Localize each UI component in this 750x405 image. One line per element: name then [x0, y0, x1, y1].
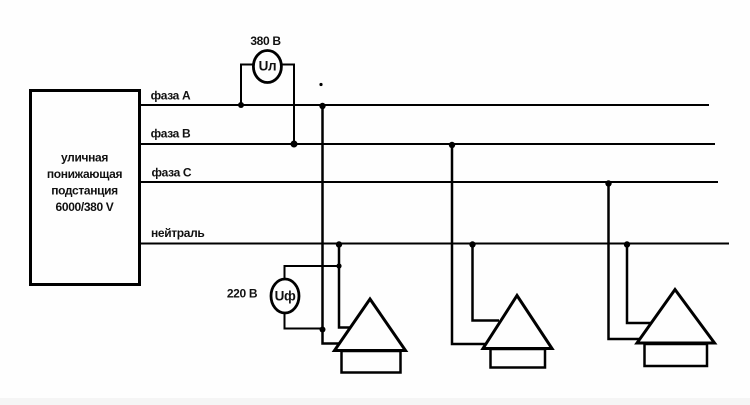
- junction dot neutral / house3 drop: [624, 241, 630, 247]
- voltmeter U1 (line voltage): [253, 51, 281, 83]
- svg-text:фаза С: фаза С: [152, 165, 192, 179]
- wire voltmeter U1 right lead: [280, 65, 294, 145]
- voltmeter U2 (phase voltage): [271, 279, 299, 313]
- stray dot node: [319, 83, 322, 86]
- svg-text:6000/380 V: 6000/380 V: [56, 200, 114, 214]
- wire house2 neutral drop: [473, 244, 500, 321]
- junction dot U2 bottom / phase drop: [320, 327, 326, 333]
- wire voltmeter U2 bottom lead: [285, 311, 323, 329]
- bottom shade strip: [0, 398, 750, 405]
- junction dot U2 top / neutral drop: [336, 263, 341, 268]
- junction dot neutral / house2 drop: [469, 241, 475, 247]
- svg-text:Uф: Uф: [275, 289, 296, 304]
- house2 body: [491, 349, 546, 368]
- house3 body: [645, 344, 708, 366]
- junction dot phase B / U1 right: [291, 141, 298, 148]
- wire house1 neutral drop: [339, 244, 351, 328]
- wire house1 phase drop: [323, 105, 343, 344]
- junction dot phase C / house3 drop: [605, 180, 611, 186]
- svg-text:220 В: 220 В: [227, 286, 258, 300]
- junction dot neutral / house1 drop: [336, 241, 342, 247]
- svg-text:уличная: уличная: [61, 151, 108, 165]
- svg-text:Uл: Uл: [259, 59, 277, 74]
- house3 roof: [637, 290, 715, 344]
- wire neutral bus: [140, 243, 729, 245]
- wire phase C bus: [140, 181, 718, 183]
- junction dot phase B / house2 drop: [449, 142, 455, 148]
- junction dot phase A / house1 drop: [319, 103, 325, 109]
- svg-text:фаза В: фаза В: [151, 126, 191, 140]
- svg-text:подстанция: подстанция: [51, 183, 118, 197]
- wire house2 phase drop: [452, 144, 487, 344]
- wire phase B bus: [140, 143, 715, 145]
- svg-text:нейтраль: нейтраль: [151, 226, 204, 240]
- substation box: [31, 91, 140, 285]
- house1 roof: [335, 299, 406, 351]
- house2 roof: [483, 296, 552, 349]
- wire house3 neutral drop: [627, 244, 652, 324]
- wire house3 phase drop: [609, 182, 642, 339]
- house1 body: [342, 351, 401, 373]
- wire voltmeter U2 top lead: [285, 266, 340, 281]
- svg-text:понижающая: понижающая: [47, 167, 123, 181]
- svg-text:380 В: 380 В: [250, 34, 281, 48]
- junction dot phase A / U1 left: [238, 102, 244, 108]
- wire voltmeter U1 left lead: [241, 65, 254, 106]
- svg-text:фаза А: фаза А: [151, 88, 191, 102]
- wire phase A bus: [140, 104, 709, 106]
